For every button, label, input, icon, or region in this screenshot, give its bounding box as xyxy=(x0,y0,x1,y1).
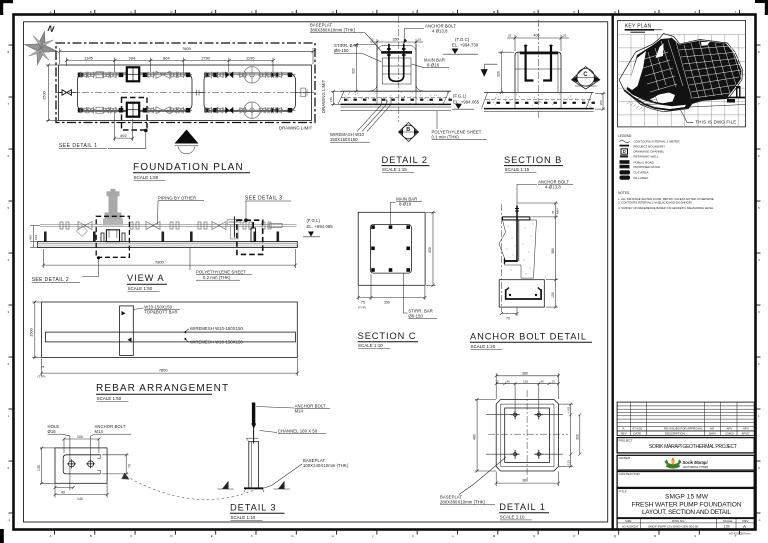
section bubble C xyxy=(572,67,600,90)
panel divider xyxy=(612,15,614,530)
svg-text:LAYOUT, SECTION AND DETAIL: LAYOUT, SECTION AND DETAIL xyxy=(642,509,731,516)
detail2 labels and leaders xyxy=(310,23,487,173)
svg-text:A: A xyxy=(623,427,625,431)
svg-text:A: A xyxy=(50,534,52,538)
plate rectangle xyxy=(55,448,107,483)
small cluster bottom-left xyxy=(636,95,658,105)
svg-text:Sorik Marapi: Sorik Marapi xyxy=(683,460,709,465)
dim 492 under detail box xyxy=(113,112,134,141)
lower block xyxy=(499,280,544,307)
svg-text:PROJECT BOUNDARY: PROJECT BOUNDARY xyxy=(634,144,666,148)
svg-text:DRAWING LIMIT: DRAWING LIMIT xyxy=(321,79,326,113)
KEY PLAN xyxy=(618,21,746,127)
svg-text:07/1/20: 07/1/20 xyxy=(633,427,643,431)
pipe centerline xyxy=(56,92,314,94)
svg-text:SCALE 1:10: SCALE 1:10 xyxy=(500,514,525,519)
svg-text:8-Ø16: 8-Ø16 xyxy=(399,201,412,206)
svg-text:492: 492 xyxy=(120,133,127,138)
legend row boundary xyxy=(620,145,630,147)
svg-text:380: 380 xyxy=(551,248,555,254)
pipe supports xyxy=(44,232,279,242)
svg-text:150X150X150: 150X150X150 xyxy=(330,137,358,142)
svg-text:25: 25 xyxy=(418,38,422,42)
left pump skid rounded rect xyxy=(78,73,193,111)
foundation slab rectangle xyxy=(59,65,312,121)
bolt shaft xyxy=(516,206,518,262)
pump 1 motor assembly gray xyxy=(103,189,123,226)
svg-text:T: T xyxy=(735,10,737,14)
svg-text:7800: 7800 xyxy=(159,368,169,373)
channel body xyxy=(249,442,259,489)
DETAIL 2 xyxy=(338,16,452,122)
svg-text:SCALE 1:10: SCALE 1:10 xyxy=(358,343,383,348)
svg-text:RE-ISSUED FOR APPROVAL: RE-ISSUED FOR APPROVAL xyxy=(664,427,703,431)
SECTION C xyxy=(357,196,437,348)
svg-text:150: 150 xyxy=(551,292,555,298)
project box xyxy=(617,438,754,453)
svg-text:SCALE 1:15: SCALE 1:15 xyxy=(382,167,407,172)
svg-text:FILL: FILL xyxy=(622,176,628,180)
svg-text:K: K xyxy=(412,10,414,14)
svg-text:F: F xyxy=(251,10,253,14)
FOUNDATION PLAN xyxy=(42,43,327,181)
svg-text:DESCRIPTION: DESCRIPTION xyxy=(665,431,685,435)
svg-text:0.2 mm (THK): 0.2 mm (THK) xyxy=(203,275,231,280)
bolt extension lines xyxy=(486,383,563,454)
svg-text:POLYETHYLENE SHEET: POLYETHYLENE SHEET xyxy=(196,270,246,275)
inner drawing area border xyxy=(24,22,608,522)
centerline xyxy=(398,16,400,122)
pump train fittings top-left xyxy=(78,67,193,81)
svg-text:E: E xyxy=(211,10,213,14)
legend row public road xyxy=(620,160,630,164)
bottom dims 75/350 xyxy=(358,297,425,299)
svg-text:130: 130 xyxy=(37,465,41,471)
svg-text:D: D xyxy=(623,149,626,154)
svg-text:40: 40 xyxy=(507,379,511,383)
svg-text:DWN: DWN xyxy=(709,431,716,435)
svg-text:2. CONTOURS INTERVAL 1 M (BLAC: 2. CONTOURS INTERVAL 1 M (BLACK) AND 5M … xyxy=(618,201,692,205)
svg-text:70: 70 xyxy=(506,316,510,320)
north compass xyxy=(21,19,63,68)
svg-text:APV: APV xyxy=(743,427,749,431)
see detail 2 label xyxy=(82,257,99,276)
svg-text:P: P xyxy=(573,10,575,14)
svg-text:8-Ø16: 8-Ø16 xyxy=(427,63,440,68)
bolt holes xyxy=(67,459,95,468)
svg-text:480: 480 xyxy=(472,434,476,440)
slab section xyxy=(482,93,595,112)
svg-text:Ø16: Ø16 xyxy=(48,429,57,434)
bolt top nut xyxy=(515,209,519,212)
section bubble B xyxy=(399,123,419,142)
dimension 1500 left xyxy=(42,64,59,123)
right pump skid rounded rect xyxy=(204,73,296,111)
REBAR ARRANGEMENT xyxy=(29,301,299,402)
svg-text:(F.G.L): (F.G.L) xyxy=(307,218,321,223)
bottom info strip xyxy=(617,519,754,530)
svg-text:40: 40 xyxy=(541,379,545,383)
left dims xyxy=(29,226,41,248)
svg-text:SCALE 1:50: SCALE 1:50 xyxy=(97,396,122,401)
svg-text:SCALE: SCALE xyxy=(723,519,733,523)
svg-text:75: 75 xyxy=(361,301,365,305)
svg-text:APV: APV xyxy=(727,427,733,431)
channel support in detail3 box xyxy=(251,222,256,242)
slab band xyxy=(38,242,298,248)
svg-text:F: F xyxy=(251,534,253,538)
svg-text:-125: -125 xyxy=(567,460,571,466)
pump 1 pedestal xyxy=(101,230,125,242)
svg-text:OWNER: OWNER xyxy=(619,456,631,460)
bottom dim 70 xyxy=(502,313,518,315)
svg-text:M14: M14 xyxy=(95,429,104,434)
svg-text:(T.O.C): (T.O.C) xyxy=(455,37,470,42)
left dim 480 xyxy=(476,400,478,472)
svg-text:DRAINAGE CHANNEL: DRAINAGE CHANNEL xyxy=(634,149,665,153)
pedestal sides through slab xyxy=(377,91,416,104)
elevation triangle left xyxy=(481,69,488,77)
pedestal outline xyxy=(377,45,416,92)
map road bottom xyxy=(624,90,745,110)
svg-text:B: B xyxy=(90,10,92,14)
section marker A below plan xyxy=(175,130,199,154)
skid end caps xyxy=(78,73,210,113)
baseplate bar xyxy=(381,51,412,54)
pump train fittings bottom-left xyxy=(78,103,193,117)
bottom dim 380 xyxy=(496,482,558,484)
svg-text:Ø8-150: Ø8-150 xyxy=(408,313,423,318)
svg-text:7800: 7800 xyxy=(182,46,192,51)
svg-text:EL. +994.065: EL. +994.065 xyxy=(307,224,334,229)
rebar cage xyxy=(382,58,411,84)
centerline xyxy=(538,20,540,120)
dimension 7800 top xyxy=(58,46,315,64)
svg-text:SMGP 15 MW: SMGP 15 MW xyxy=(665,494,709,501)
outer square xyxy=(358,212,425,285)
dim 150 right xyxy=(602,94,604,110)
SECTION B xyxy=(481,20,606,173)
svg-text:TOP&BOTT BAR: TOP&BOTT BAR xyxy=(144,310,177,315)
baseplate xyxy=(244,487,264,489)
top dim 380 xyxy=(496,375,558,377)
see detail 1 leader xyxy=(108,131,146,148)
baseplate flat bar xyxy=(503,217,530,220)
inner pedestal lines xyxy=(518,52,558,92)
bolt crosses xyxy=(511,410,544,459)
dimension row 1345/994/864/1790/1195 xyxy=(65,55,275,72)
detail2 wiremesh xyxy=(344,92,452,105)
bottom-left hatch xyxy=(627,102,645,112)
contractor box xyxy=(617,472,754,488)
svg-text:WIREMESH W10-150X150: WIREMESH W10-150X150 xyxy=(190,326,244,331)
see detail 3 dashed box xyxy=(237,220,263,254)
svg-text:400: 400 xyxy=(534,34,540,38)
svg-text:P: P xyxy=(573,534,575,538)
svg-text:DETAIL 2: DETAIL 2 xyxy=(382,155,428,165)
dash-dot vertical xyxy=(501,204,503,312)
sorik marapi logo xyxy=(664,457,708,469)
svg-text:1500: 1500 xyxy=(29,327,34,337)
anchor bolts U loop xyxy=(389,44,404,82)
dim 70 right xyxy=(125,455,127,474)
svg-text:15: 15 xyxy=(552,379,556,383)
drawing limit dash-dot box xyxy=(56,43,315,123)
svg-text:DETAIL 3: DETAIL 3 xyxy=(230,503,276,513)
svg-text:H: H xyxy=(332,534,334,538)
svg-text:CHANNEL 100 X 50: CHANNEL 100 X 50 xyxy=(278,428,318,433)
svg-text:CONTRACTOR: CONTRACTOR xyxy=(619,472,641,476)
right outlet pipe xyxy=(296,92,312,94)
svg-text:PROPOSED ROAD: PROPOSED ROAD xyxy=(634,165,661,169)
pedestal top rect xyxy=(501,404,554,466)
svg-text:150: 150 xyxy=(34,235,38,240)
base fillet curves xyxy=(370,86,424,92)
baseplate rect xyxy=(505,408,550,462)
svg-text:SMGP-FWPF-CIV-DWG-GEN-001-00: SMGP-FWPF-CIV-DWG-GEN-001-00 xyxy=(648,525,699,529)
svg-text:100X140X10mm (THK): 100X140X10mm (THK) xyxy=(303,463,349,468)
svg-text:MIN: MIN xyxy=(556,209,560,215)
svg-text:864: 864 xyxy=(163,55,170,60)
legend row drain xyxy=(621,149,628,154)
svg-text:FOUNDATION PLAN: FOUNDATION PLAN xyxy=(133,162,244,173)
bolt hook xyxy=(505,260,518,262)
svg-text:N: N xyxy=(533,10,535,14)
right dims xyxy=(517,202,560,309)
svg-text:WIREMESH W10-150X150: WIREMESH W10-150X150 xyxy=(190,339,244,344)
map spot elements xyxy=(736,86,741,98)
svg-text:+125: +125 xyxy=(567,406,571,413)
dim 7800 below xyxy=(42,249,297,268)
svg-text:CUT AREA: CUT AREA xyxy=(634,171,649,175)
rebar dots xyxy=(371,225,410,272)
svg-text:DRAWING LIMIT: DRAWING LIMIT xyxy=(279,125,313,130)
svg-text:380X380X10mm (THK): 380X380X10mm (THK) xyxy=(310,28,356,33)
svg-text:KEY PLAN: KEY PLAN xyxy=(625,24,652,30)
svg-text:40: 40 xyxy=(61,491,65,495)
legend row cut area xyxy=(620,170,631,174)
svg-text:TITLE: TITLE xyxy=(619,489,627,493)
dim 140 bottom xyxy=(55,494,107,496)
map white clearings xyxy=(628,51,647,90)
svg-text:SORIK MARAPI GEOTHERMAL PROJEC: SORIK MARAPI GEOTHERMAL PROJECT xyxy=(649,444,737,450)
slab 150 dim left xyxy=(333,91,335,104)
svg-text:S: S xyxy=(694,534,696,538)
outer rect xyxy=(42,302,298,358)
dim 130 left xyxy=(41,448,43,483)
baseplate bar xyxy=(520,52,558,55)
VIEW A xyxy=(29,189,334,292)
svg-text:A3 420X297mm: A3 420X297mm xyxy=(729,532,751,536)
pedestal top chamfer curves xyxy=(377,45,416,50)
pipe line xyxy=(40,223,297,225)
check valve diamond xyxy=(77,226,88,237)
svg-text:LEGEND:: LEGEND: xyxy=(618,134,632,138)
svg-text:-1: -1 xyxy=(8,518,11,522)
svg-text:350: 350 xyxy=(384,301,390,305)
svg-text:A: A xyxy=(50,10,52,14)
svg-text:4 Ø13,8: 4 Ø13,8 xyxy=(432,29,448,34)
svg-text:1195: 1195 xyxy=(246,55,255,60)
svg-text:PIPING BY OTHER: PIPING BY OTHER xyxy=(158,196,196,201)
svg-text:REV: REV xyxy=(743,519,749,523)
TITLE BLOCK xyxy=(617,402,754,529)
legend row fill area xyxy=(620,176,631,180)
svg-text:1500: 1500 xyxy=(42,90,47,100)
corner crop mark top-left xyxy=(0,0,13,3)
svg-text:RETAINING WALL: RETAINING WALL xyxy=(634,155,659,159)
pump 2 gray tee assembly xyxy=(227,216,241,239)
pump train fittings top-right xyxy=(204,67,296,83)
dim 1500 left xyxy=(34,302,36,358)
svg-text:N: N xyxy=(533,534,535,538)
pump train fittings bottom-right xyxy=(204,102,296,118)
svg-text:M14: M14 xyxy=(295,409,304,414)
concrete mass outline xyxy=(499,220,536,278)
see detail 1 dashed box xyxy=(122,98,148,131)
pedestal outline with chamfer xyxy=(515,52,561,92)
ANCHOR BOLT DETAIL xyxy=(470,179,592,349)
corner crop mark top-right xyxy=(755,0,768,3)
svg-text:THIS IS DWG FILE: THIS IS DWG FILE xyxy=(695,120,736,125)
svg-text:SIZE: SIZE xyxy=(625,519,631,523)
svg-text:SCALE 1:50: SCALE 1:50 xyxy=(128,286,153,291)
svg-text:S: S xyxy=(694,10,696,14)
svg-text:75: 75 xyxy=(551,210,555,214)
legend row contour line xyxy=(620,155,628,157)
sectionB wiremesh xyxy=(486,93,595,108)
svg-text:300: 300 xyxy=(576,434,580,440)
svg-text:140: 140 xyxy=(77,497,83,501)
svg-text:SCALE 1:20: SCALE 1:20 xyxy=(471,344,496,349)
svg-text:SEE DETAIL 1: SEE DETAIL 1 xyxy=(59,143,98,149)
svg-text:-1: -1 xyxy=(758,518,761,522)
svg-text:15: 15 xyxy=(496,379,500,383)
svg-text:SECTION C: SECTION C xyxy=(358,331,417,341)
dim 350 top xyxy=(370,38,423,46)
svg-text:100: 100 xyxy=(77,435,83,439)
svg-text:A: A xyxy=(743,524,746,529)
svg-text:REV: REV xyxy=(621,431,627,435)
svg-text:380: 380 xyxy=(522,479,528,483)
DETAIL 1 xyxy=(440,372,581,520)
svg-text:SCALE 1:10: SCALE 1:10 xyxy=(231,515,256,520)
svg-text:GEOTHERMAL POWER: GEOTHERMAL POWER xyxy=(683,466,709,469)
svg-text:SCALE 1:50: SCALE 1:50 xyxy=(134,175,159,180)
dim 40 bottom xyxy=(55,487,73,489)
J anchor bolts xyxy=(526,45,551,81)
svg-text:Ø8-150: Ø8-150 xyxy=(334,48,349,53)
anchor bolt xyxy=(252,403,255,424)
svg-text:320: 320 xyxy=(352,68,356,74)
svg-text:E: E xyxy=(211,534,213,538)
svg-text:SEE DETAIL 3: SEE DETAIL 3 xyxy=(245,196,282,202)
svg-text:1:50: 1:50 xyxy=(724,525,730,529)
svg-text:H: H xyxy=(332,10,334,14)
svg-text:VIEW A: VIEW A xyxy=(127,273,164,283)
vertical bar strip xyxy=(120,306,134,356)
dim 320 left xyxy=(355,45,357,92)
dim 400 top xyxy=(507,34,569,51)
svg-text:380: 380 xyxy=(522,372,528,376)
dim 450 right xyxy=(432,212,434,285)
dim 100 top xyxy=(64,438,99,440)
svg-text:25: 25 xyxy=(563,34,567,38)
LEGEND xyxy=(618,134,680,180)
svg-text:(TYP): (TYP) xyxy=(358,306,366,310)
break marks xyxy=(218,481,290,489)
revision table xyxy=(617,402,754,436)
svg-text:EL. +994.065: EL. +994.065 xyxy=(453,100,480,105)
channel profile inside (opens right) xyxy=(63,455,100,474)
concrete stipple xyxy=(507,224,534,275)
svg-text:994: 994 xyxy=(129,55,136,60)
dim 320 left xyxy=(500,52,502,92)
svg-text:SEE DETAIL 2: SEE DETAIL 2 xyxy=(32,277,69,283)
placement arc xyxy=(126,476,259,500)
svg-text:7800: 7800 xyxy=(155,260,165,265)
title box xyxy=(617,488,754,517)
svg-text:70: 70 xyxy=(128,464,132,468)
svg-text:350: 350 xyxy=(393,38,399,42)
svg-text:ANCHOR BOLT: ANCHOR BOLT xyxy=(538,179,569,184)
center crosshair xyxy=(488,433,568,435)
svg-text:DETAIL 1: DETAIL 1 xyxy=(499,502,545,512)
svg-text:APVD: APVD xyxy=(742,431,750,435)
svg-text:25: 25 xyxy=(508,34,512,38)
svg-text:NOTES:: NOTES: xyxy=(618,191,630,195)
svg-text:EL. +994.730: EL. +994.730 xyxy=(452,43,479,48)
map urban mass xyxy=(627,38,742,110)
DETAIL 3 plate plan (bottom left) xyxy=(37,424,259,501)
svg-text:C: C xyxy=(583,72,588,78)
NOTES xyxy=(618,191,714,210)
svg-text:CHKD: CHKD xyxy=(726,431,734,435)
key plan box xyxy=(618,21,746,127)
svg-text:150: 150 xyxy=(599,100,603,105)
left inlet flange xyxy=(62,90,72,95)
revision row A xyxy=(621,427,750,436)
svg-text:HD: HD xyxy=(710,427,714,431)
svg-text:CONTOURS INTERVAL 1 METER: CONTOURS INTERVAL 1 METER xyxy=(634,140,681,144)
legend row proposed road xyxy=(620,165,630,169)
wiremesh band xyxy=(45,332,295,342)
svg-text:CUT: CUT xyxy=(622,171,628,175)
svg-text:SCALE 1:15: SCALE 1:15 xyxy=(505,167,530,172)
svg-text:320: 320 xyxy=(497,71,501,77)
legend row contours xyxy=(620,140,630,143)
svg-text:(TYP): (TYP) xyxy=(38,375,46,379)
svg-text:A: A xyxy=(184,138,189,145)
svg-text:PROJECT: PROJECT xyxy=(619,438,633,442)
connecting pipe between skids xyxy=(192,92,204,94)
pipe fittings gray xyxy=(60,222,282,230)
top dim row2 xyxy=(496,383,558,385)
map grid xyxy=(618,35,746,127)
svg-text:FRESH WATER PUMP FOUNDATION: FRESH WATER PUMP FOUNDATION xyxy=(632,501,742,508)
stirrup U xyxy=(506,289,541,299)
map boundary xyxy=(619,34,743,112)
svg-text:1345: 1345 xyxy=(84,55,94,60)
svg-text:0.1 min (THK): 0.1 min (THK) xyxy=(432,135,460,140)
DETAIL 3 elevation xyxy=(218,403,349,521)
right dims xyxy=(570,415,572,455)
svg-text:B: B xyxy=(406,127,410,133)
svg-text:PUBLIC ROAD: PUBLIC ROAD xyxy=(634,160,655,164)
svg-text:150: 150 xyxy=(329,97,333,102)
svg-text:75: 75 xyxy=(41,365,45,369)
owner box xyxy=(617,455,754,470)
